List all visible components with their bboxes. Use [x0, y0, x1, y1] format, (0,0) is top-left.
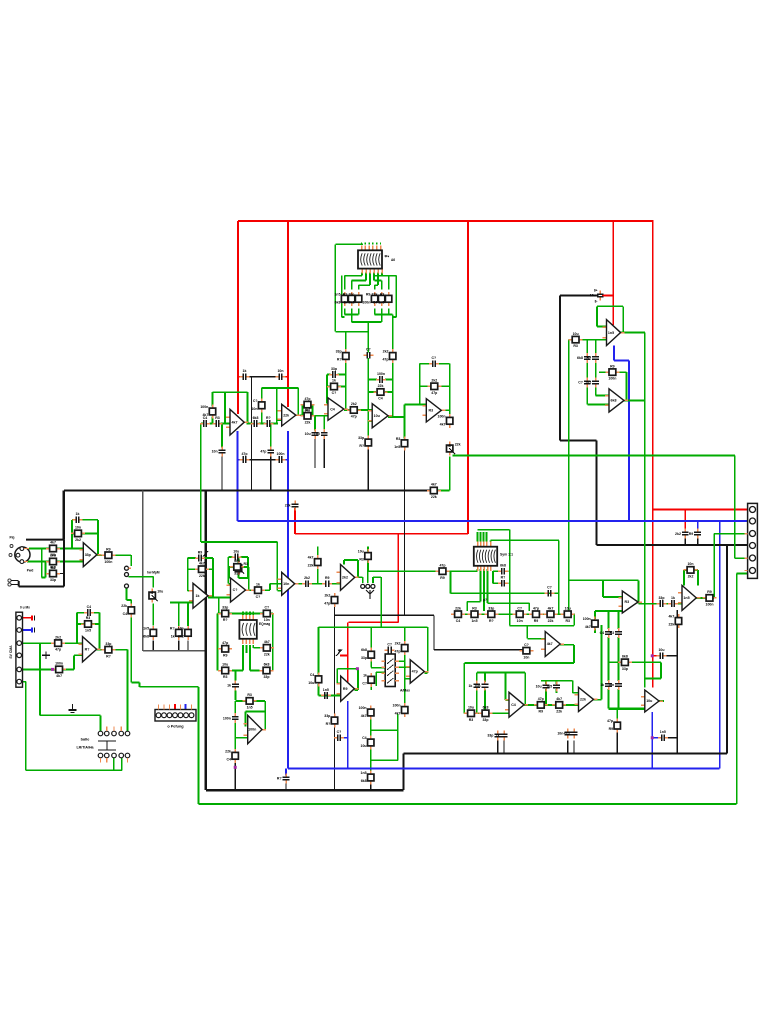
wire	[490, 540, 492, 541]
wire	[736, 573, 738, 804]
wire	[388, 416, 405, 418]
svg-text:A/Max: A/Max	[400, 689, 410, 693]
wire	[277, 590, 281, 592]
transformer T1	[358, 245, 382, 273]
wire	[369, 273, 371, 286]
ground symbol footswitch	[69, 704, 77, 713]
resistor below U4	[358, 436, 371, 450]
wire	[434, 649, 523, 651]
svg-text:R3: R3	[247, 693, 252, 697]
svg-text:47p: 47p	[439, 563, 445, 567]
wire	[492, 571, 494, 583]
wire	[23, 642, 55, 644]
wire	[74, 654, 83, 656]
op-amp U8	[79, 543, 101, 567]
svg-text:R9: R9	[106, 547, 111, 551]
wire	[23, 617, 32, 619]
svg-text:R3: R3	[428, 409, 433, 413]
resistor R R9	[52, 662, 66, 678]
wire	[323, 438, 325, 468]
svg-text:22k: 22k	[548, 619, 554, 623]
capacitor C C?	[608, 680, 622, 690]
pin header J2	[16, 612, 23, 687]
transformer T3	[239, 615, 256, 644]
wire red rail top	[238, 220, 654, 222]
resistor fb U22	[684, 562, 698, 578]
wire	[130, 600, 132, 606]
wire	[326, 375, 328, 404]
svg-text:6k8: 6k8	[361, 648, 367, 652]
wire	[573, 645, 575, 663]
capacitor C 1k	[545, 586, 555, 597]
wire	[420, 385, 430, 387]
wire	[98, 613, 100, 650]
jumper pin 1	[125, 566, 129, 570]
svg-text:100n: 100n	[608, 377, 616, 381]
wire	[392, 361, 394, 417]
svg-text:balle: balle	[81, 738, 90, 742]
resistor ladder	[513, 606, 527, 622]
svg-text:22k: 22k	[556, 710, 562, 714]
svg-text:33p: 33p	[263, 675, 269, 679]
wire	[319, 694, 341, 696]
capacitor C 47p	[195, 550, 205, 561]
wire	[365, 273, 367, 281]
svg-text:2k2: 2k2	[585, 381, 591, 385]
wire	[345, 361, 347, 410]
wire	[697, 538, 699, 545]
svg-text:R?: R?	[266, 416, 271, 420]
wire	[573, 614, 575, 626]
wire	[376, 671, 385, 673]
wire	[312, 405, 314, 416]
svg-text:0 u Mx: 0 u Mx	[20, 606, 30, 610]
wire	[23, 668, 56, 670]
svg-text:R?: R?	[277, 777, 282, 781]
capacitor C R3	[314, 429, 328, 439]
wire	[497, 741, 499, 754]
wire	[221, 424, 223, 448]
wire	[276, 583, 278, 591]
ground bus wire	[402, 753, 404, 790]
svg-text:C?: C?	[362, 681, 367, 685]
trim pot	[235, 561, 248, 575]
resistor R 10u	[81, 616, 95, 632]
wire	[340, 737, 348, 739]
wire	[201, 423, 203, 425]
wire	[224, 392, 226, 423]
wire	[25, 682, 27, 771]
wire	[614, 360, 629, 362]
wire	[527, 638, 545, 640]
svg-text:R?: R?	[170, 626, 175, 630]
svg-text:6k8: 6k8	[234, 559, 240, 563]
svg-text:R3: R3	[565, 619, 570, 623]
wire	[463, 663, 465, 713]
svg-text:2k2: 2k2	[688, 575, 694, 579]
svg-text:100n: 100n	[277, 452, 285, 456]
svg-text:10u: 10u	[50, 554, 56, 558]
jack sleeve	[371, 584, 375, 588]
resistor fb U16	[243, 693, 257, 709]
wire	[484, 672, 486, 682]
svg-text:10n: 10n	[283, 582, 289, 586]
wire	[234, 701, 236, 714]
wire	[370, 627, 372, 650]
svg-text:6k8: 6k8	[361, 779, 367, 783]
svg-text:8-: 8-	[595, 300, 598, 304]
wire	[237, 431, 239, 521]
wire	[229, 566, 233, 568]
wire	[285, 781, 287, 790]
resistor on line bus	[436, 563, 450, 579]
wire	[603, 596, 622, 598]
wire	[424, 672, 427, 674]
wire	[483, 532, 485, 542]
wire	[345, 332, 347, 351]
wire	[609, 661, 621, 663]
wire	[335, 243, 363, 245]
wire	[188, 590, 193, 592]
capacitor C R9	[376, 372, 386, 383]
svg-text:4k7: 4k7	[556, 697, 562, 701]
wire	[296, 414, 303, 416]
wire	[737, 572, 748, 574]
wire green mid bus	[453, 454, 735, 456]
wire	[276, 388, 278, 424]
svg-text:33p: 33p	[482, 718, 488, 722]
capacitor C 10u	[213, 416, 223, 427]
wire	[252, 612, 254, 616]
svg-text:1k: 1k	[671, 596, 675, 600]
svg-text:47p: 47p	[351, 415, 357, 419]
wire	[597, 305, 623, 307]
wire	[288, 768, 720, 770]
wire	[475, 712, 479, 714]
svg-text:10u: 10u	[468, 706, 474, 710]
wire	[596, 306, 598, 326]
resistor R 33p	[170, 626, 182, 640]
svg-text:R?: R?	[587, 356, 592, 360]
wire	[370, 750, 372, 771]
wire	[367, 561, 369, 572]
resistor R 22k	[361, 736, 374, 750]
wire	[232, 670, 243, 672]
op-amp U10	[189, 583, 212, 608]
wire	[644, 333, 646, 688]
svg-text:100n: 100n	[393, 704, 401, 708]
resistor R R?	[251, 582, 265, 598]
svg-text:R?: R?	[489, 619, 494, 623]
svg-text:33p: 33p	[234, 572, 240, 576]
svg-text:4k7: 4k7	[56, 674, 62, 678]
resistor fb U11	[230, 559, 244, 575]
resistor R 6k8	[101, 642, 115, 658]
svg-text:33p: 33p	[358, 436, 364, 440]
wire	[228, 567, 230, 579]
potentiometer master	[447, 442, 461, 456]
wire	[93, 612, 100, 614]
svg-text:22k: 22k	[378, 384, 384, 388]
wire	[404, 417, 406, 438]
svg-text:R3: R3	[359, 558, 364, 562]
svg-text:Pwd: Pwd	[27, 569, 34, 573]
wire	[264, 712, 266, 730]
wire	[596, 395, 609, 397]
resistor bank T1	[372, 292, 385, 306]
resistor R 2k2	[301, 397, 315, 413]
wire	[556, 681, 558, 684]
capacitor C R3	[321, 688, 331, 699]
wire	[504, 672, 506, 700]
capacitor supply top-right	[590, 291, 604, 301]
wire	[618, 611, 620, 629]
wire	[659, 700, 664, 702]
wire	[242, 612, 244, 616]
resistor R 22k	[308, 672, 321, 686]
wire	[545, 704, 556, 706]
wire	[185, 704, 187, 709]
resistor R R9	[200, 405, 215, 419]
svg-text:47p: 47p	[538, 697, 544, 701]
wire	[262, 589, 270, 591]
wire	[187, 558, 189, 591]
wire	[357, 669, 359, 690]
wire	[375, 672, 377, 686]
wire	[295, 533, 468, 535]
wire	[368, 379, 377, 381]
wire	[270, 583, 282, 585]
wire	[595, 361, 597, 379]
wire	[603, 579, 639, 581]
ground bus wire	[560, 439, 597, 441]
wire	[595, 610, 622, 612]
svg-text:R3: R3	[223, 675, 228, 679]
wire	[370, 784, 372, 791]
wire	[626, 372, 628, 400]
wire	[212, 392, 214, 406]
wire blue bus	[238, 520, 751, 522]
resistor R 4k7	[121, 603, 134, 617]
svg-text:47p: 47p	[412, 670, 419, 674]
capacitor C C4	[231, 549, 241, 560]
wire	[595, 386, 597, 396]
capacitor C 1k	[429, 356, 439, 367]
wire	[370, 659, 372, 667]
wire	[404, 653, 406, 679]
jack ring	[366, 584, 370, 588]
svg-text:1k: 1k	[332, 379, 336, 383]
wire	[234, 723, 236, 749]
op-amp U9	[79, 637, 101, 662]
footswitch DPDT	[98, 727, 130, 763]
svg-text:33p: 33p	[50, 578, 56, 582]
ground bus wire	[64, 489, 432, 491]
wire	[98, 740, 116, 742]
svg-text:6k8: 6k8	[50, 566, 56, 570]
gnd lugs	[8, 579, 19, 586]
wire	[238, 459, 243, 461]
svg-text:1k: 1k	[196, 594, 200, 598]
svg-text:4k7: 4k7	[547, 642, 553, 646]
pin header J3	[155, 705, 196, 722]
svg-text:47p: 47p	[564, 732, 570, 736]
svg-text:10n: 10n	[348, 292, 354, 296]
resistor ladder	[451, 606, 465, 622]
resistor R 47p	[605, 364, 619, 380]
wire	[388, 276, 390, 290]
wire	[487, 569, 489, 603]
resistor bank T1	[362, 292, 377, 306]
wire	[467, 601, 480, 603]
wire	[245, 612, 247, 616]
capacitor C 1n5	[498, 564, 508, 575]
wire	[371, 729, 398, 731]
resistor ladder	[561, 606, 575, 622]
wire	[242, 645, 244, 671]
ground bus wire	[205, 491, 207, 791]
wire	[72, 519, 74, 521]
wire	[597, 326, 607, 328]
svg-text:Φ♥: Φ♥	[385, 255, 390, 259]
wire	[269, 584, 271, 591]
wire	[212, 558, 214, 598]
wire	[334, 244, 336, 331]
wire	[77, 623, 84, 625]
resistor ladder	[468, 606, 482, 622]
resistor R 10n	[427, 379, 441, 395]
wire	[113, 758, 115, 771]
wire	[45, 652, 47, 660]
wire	[364, 243, 366, 245]
op-amp U3	[324, 398, 348, 421]
wire	[560, 644, 574, 646]
svg-text:22k: 22k	[199, 574, 205, 578]
svg-text:47p: 47p	[241, 452, 247, 456]
svg-text:22k: 22k	[372, 292, 378, 296]
capacitor C C4	[536, 682, 550, 692]
svg-text:R?: R?	[359, 444, 364, 448]
wire	[368, 391, 376, 393]
wire	[645, 678, 661, 680]
resistor R 1n5	[618, 655, 632, 671]
capacitor C R?	[496, 731, 508, 741]
op-amp U12	[278, 572, 299, 595]
wire	[31, 628, 33, 633]
resistor R R9	[359, 706, 374, 720]
wire	[638, 580, 640, 603]
wire	[209, 568, 213, 570]
svg-text:2k2: 2k2	[395, 642, 401, 646]
svg-text:47p: 47p	[533, 606, 539, 610]
wire	[336, 669, 338, 684]
resistor R 1k	[260, 606, 274, 622]
svg-text:p?: p?	[483, 598, 487, 602]
svg-text:6k8: 6k8	[253, 416, 259, 420]
resistor R 10n	[382, 349, 395, 363]
wire	[270, 456, 272, 491]
resistor R 6k8	[336, 349, 349, 363]
wire	[82, 532, 98, 534]
svg-text:2k2: 2k2	[75, 538, 81, 542]
wire	[433, 615, 435, 650]
wire	[29, 548, 49, 550]
wire	[254, 700, 265, 702]
svg-text:100n: 100n	[104, 560, 112, 564]
svg-text:22k: 22k	[668, 623, 674, 627]
svg-text:6k8: 6k8	[622, 655, 628, 659]
wire	[318, 627, 320, 674]
wire	[684, 538, 686, 545]
wire	[247, 376, 277, 378]
wire	[234, 763, 236, 791]
svg-text:1k: 1k	[243, 369, 247, 373]
wire	[337, 682, 340, 684]
wire	[262, 387, 299, 389]
resistor R C?	[178, 626, 191, 640]
ground bus wire	[559, 296, 561, 441]
wire	[314, 438, 316, 468]
capacitor C C4	[305, 429, 319, 439]
wire	[72, 532, 74, 534]
svg-text:2k2: 2k2	[431, 379, 437, 383]
svg-text:R9: R9	[198, 550, 203, 554]
svg-text:33p: 33p	[487, 734, 493, 738]
resistor R 6k8	[324, 714, 337, 728]
wire	[545, 681, 547, 684]
wire	[344, 276, 346, 290]
resistor R R?	[327, 379, 341, 395]
wire	[466, 602, 468, 611]
svg-text:1n5: 1n5	[143, 626, 149, 630]
trim arrow U10	[203, 551, 208, 557]
svg-text:22k: 22k	[285, 504, 291, 508]
svg-text:Sym 1:1: Sym 1:1	[500, 553, 513, 557]
resistor R R3	[143, 626, 156, 640]
wire	[343, 560, 345, 565]
wire	[152, 604, 154, 626]
svg-text:R3: R3	[215, 416, 220, 420]
wire	[264, 701, 266, 712]
svg-text:R9: R9	[534, 619, 539, 623]
wire	[508, 570, 509, 572]
resistor R 1n5	[479, 706, 493, 722]
wire	[92, 623, 99, 625]
wire	[284, 459, 288, 461]
resistor R 100n	[260, 640, 274, 656]
net marker	[651, 654, 654, 657]
svg-text:6k8: 6k8	[611, 399, 617, 403]
capacitor C 1k	[363, 348, 373, 359]
svg-text:22k: 22k	[121, 604, 127, 608]
svg-text:o Pefung: o Pefung	[167, 725, 184, 729]
wire	[247, 459, 277, 461]
wire	[272, 614, 274, 671]
capacitor C 33p	[587, 353, 599, 363]
wire	[372, 577, 374, 583]
svg-text:100n: 100n	[438, 414, 446, 418]
wire	[653, 509, 751, 511]
wire	[449, 410, 451, 416]
wire	[345, 314, 359, 316]
svg-text:R?: R?	[343, 292, 348, 296]
wire	[238, 520, 751, 522]
svg-text:10n: 10n	[75, 526, 81, 530]
wire	[392, 315, 394, 351]
capacitor C 1k	[334, 730, 344, 741]
wire	[587, 404, 609, 406]
wire	[77, 612, 85, 614]
